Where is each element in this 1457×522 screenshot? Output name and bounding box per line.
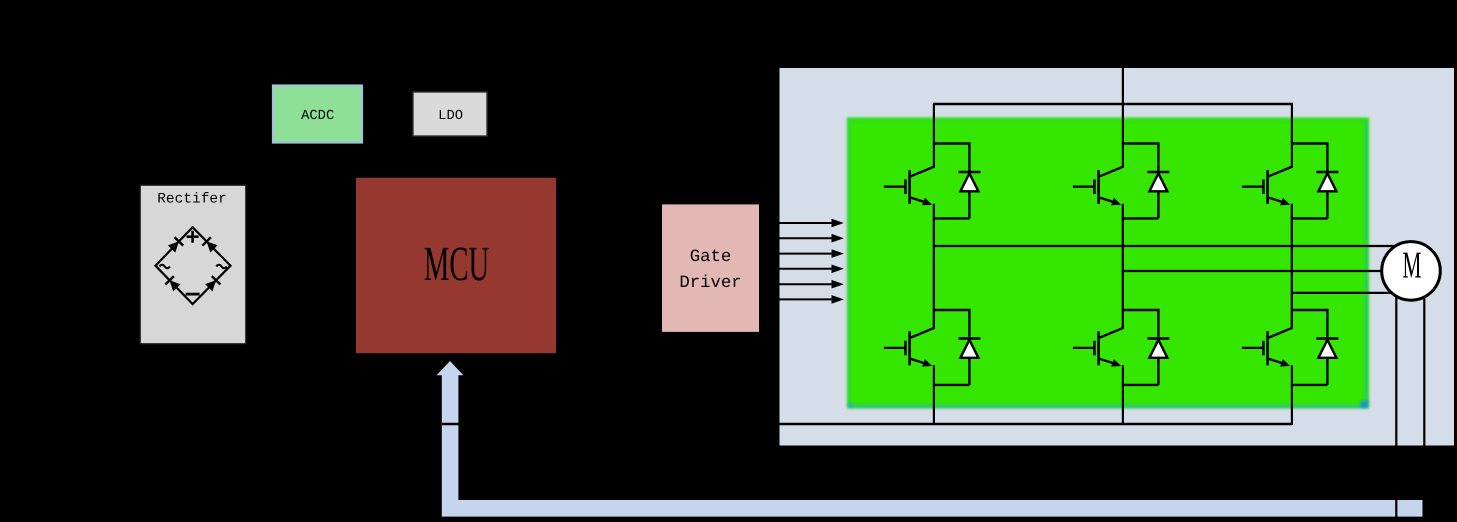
wire diode top tee D6l (1291, 309, 1328, 311)
plus terminal mark (187, 231, 199, 243)
bridge diode D2 (right-top) (202, 237, 217, 252)
wire emitter branch Q1 (933, 204, 935, 329)
wire diode bottom tee D1u (968, 191, 970, 218)
MCU block (356, 178, 556, 354)
power stage (green) background (847, 118, 1369, 409)
wire diode top tee D3u (1122, 142, 1159, 144)
AC tilde left (160, 265, 170, 268)
IGBT Q2 (884, 328, 935, 367)
minus terminal mark (186, 293, 200, 296)
svg-text:LDO: LDO (438, 109, 463, 124)
inverter module background (780, 68, 1455, 446)
IGBT Q5 (1242, 167, 1293, 206)
wire emitter branch Q4 (1122, 365, 1124, 425)
wire diode bottom tee D6l (1326, 358, 1328, 385)
wire diode top tee D2l (933, 309, 970, 311)
svg-text:ACDC: ACDC (301, 109, 334, 124)
wire diode top tee D4l (1122, 309, 1159, 311)
wire collector branch Q3 (1122, 104, 1124, 168)
gate driver block (662, 204, 759, 332)
svg-text:M: M (1403, 245, 1422, 287)
wire DC+ top rail (933, 103, 1293, 105)
diode D6l (1316, 337, 1338, 340)
bridge diode D3 (bottom-left) (165, 276, 180, 291)
diode D5u (1316, 171, 1338, 174)
wire collector branch Q6 (1291, 205, 1293, 329)
wire diode bottom tee D3u (1157, 191, 1159, 218)
IGBT Q3 (1073, 167, 1124, 206)
wire DC- bottom rail (300, 423, 1292, 425)
wire collector branch Q1 (933, 104, 935, 168)
wire motor lead 2 (1423, 271, 1425, 522)
wire motor lead 1 (1395, 271, 1397, 522)
motor M (1382, 242, 1441, 301)
bridge diode D4 (bottom-right) (205, 276, 220, 291)
label Gate Driver (679, 248, 741, 293)
diode D1u (958, 171, 980, 174)
wire diode bottom tee D4l (1157, 358, 1159, 385)
wire phase C (1291, 292, 1411, 294)
svg-text:MCU: MCU (424, 236, 489, 291)
gate signal arrow 1 (761, 219, 844, 228)
wire diode top tee D5u (1291, 142, 1328, 144)
wire emitter branch Q2 (933, 365, 935, 425)
gate signal arrow 4 (761, 265, 844, 274)
wire collector branch Q5 (1291, 104, 1293, 168)
ACDC block (273, 86, 362, 143)
wire diode bottom tee D5u (1326, 191, 1328, 218)
wire collector branch Q2 (933, 205, 935, 329)
LDO block (413, 92, 487, 136)
svg-text:Gate: Gate (690, 248, 731, 267)
wire phase B (1122, 270, 1411, 272)
wire emitter branch Q5 (1291, 204, 1293, 329)
bridge diode D1 (left-top) (168, 237, 183, 252)
svg-text:Rectifer: Rectifer (157, 192, 227, 208)
diode D3u (1147, 171, 1169, 174)
gate signal arrow 2 (761, 234, 844, 243)
gate signal arrow 5 (761, 280, 844, 289)
bridge rectifier diamond (156, 227, 231, 304)
wire DC+ feed from top (1122, 0, 1124, 105)
gate signal arrow 3 (761, 249, 844, 258)
IGBT Q6 (1242, 328, 1293, 367)
wire emitter branch Q3 (1122, 204, 1124, 329)
rectifier block (140, 185, 246, 344)
wire emitter branch Q6 (1291, 365, 1293, 425)
IGBT Q4 (1073, 328, 1124, 367)
diode D4l (1147, 337, 1169, 340)
svg-text:Driver: Driver (679, 274, 741, 293)
wire phase A (933, 245, 1411, 247)
AC tilde right (216, 265, 226, 268)
wire diode bottom tee D2l (968, 358, 970, 385)
wire collector branch Q4 (1122, 205, 1124, 329)
feedback bus arrow to MCU (light blue) (437, 361, 1423, 517)
wire diode top tee D1u (933, 142, 970, 144)
IGBT Q1 (884, 167, 935, 206)
gate signal arrow 6 (761, 295, 844, 304)
diode D2l (958, 337, 980, 340)
